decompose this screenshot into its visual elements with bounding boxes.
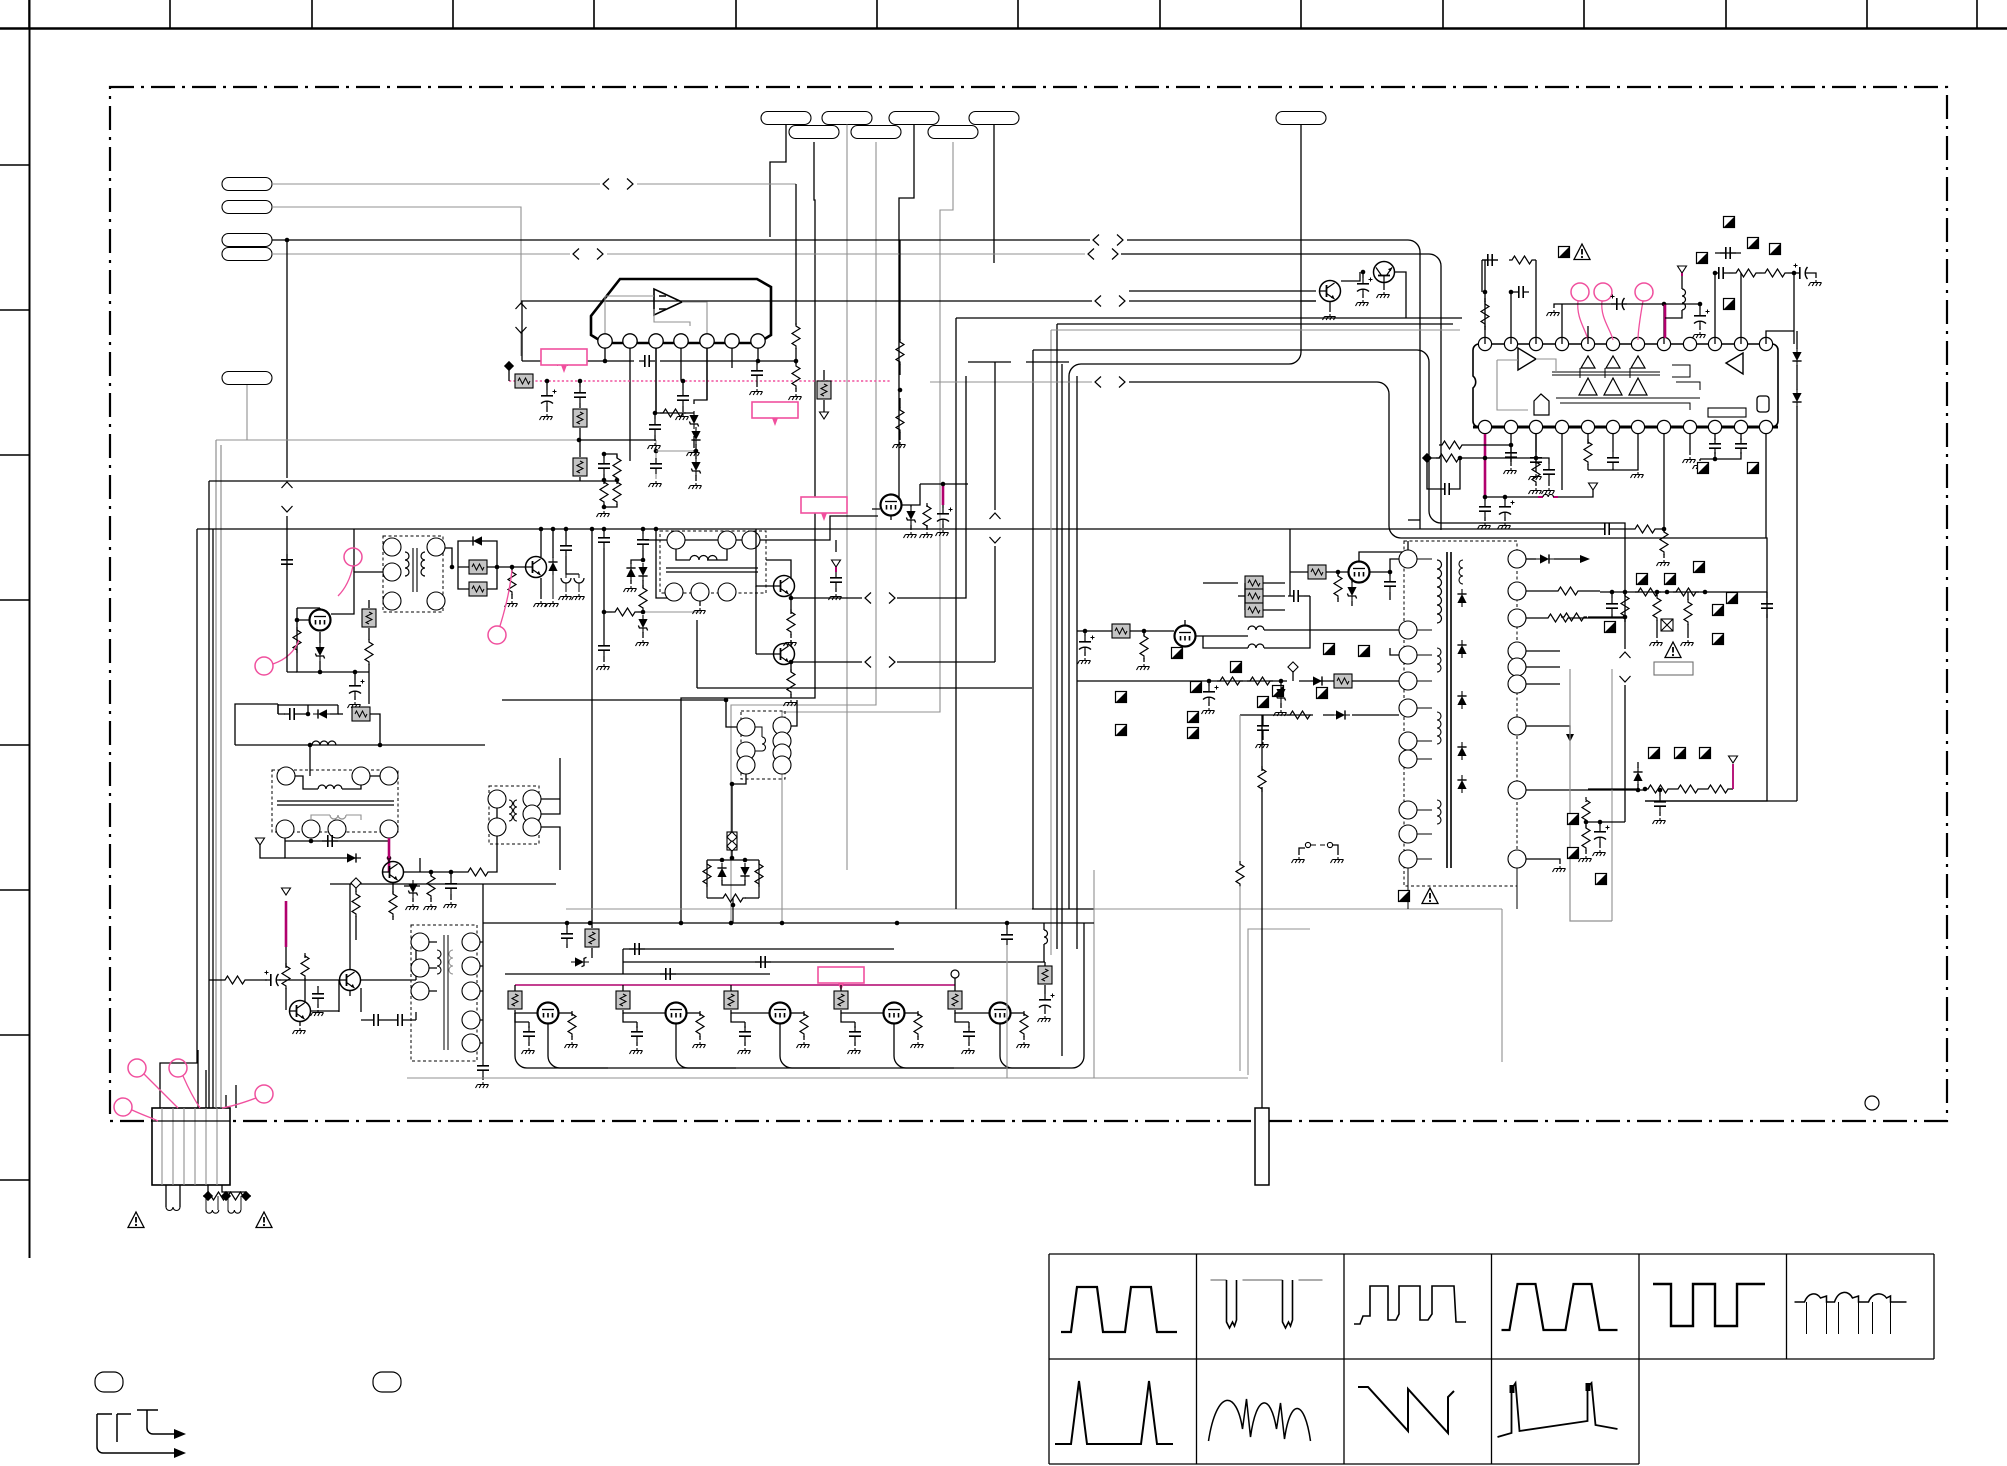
- resistor y592 a: [1635, 588, 1661, 596]
- hook-arrow legend symbol: [97, 1410, 174, 1453]
- resistor x1586 y808: [1585, 801, 1587, 802]
- wire x900 from top: [899, 240, 901, 330]
- resistor chain y789: [1588, 788, 1636, 790]
- connector stub CB8: [928, 126, 978, 139]
- cap x655 y427: [654, 413, 656, 419]
- resistor x1657 y600: [1656, 592, 1658, 596]
- resistor x431: [430, 872, 432, 876]
- op-amp inside U1: [654, 289, 682, 315]
- transformer T2 dashed box: [660, 531, 766, 593]
- electrolytic x1049 y1002: [1039, 994, 1055, 1011]
- bus wire net5 y301: [521, 300, 1316, 302]
- zener x643 y622: [638, 615, 647, 633]
- junction y790 parts: [1636, 788, 1641, 793]
- half square marker d: [1697, 253, 1708, 264]
- U1 internal wiring: [605, 296, 707, 336]
- zener x696: [695, 451, 697, 459]
- magenta drop x389: [388, 838, 391, 872]
- resistor R y445 left: [1439, 441, 1465, 449]
- wire x197 drop to connector: [160, 529, 197, 1108]
- caps x1715 x1741: [1709, 438, 1721, 454]
- fuse bar F1: [1255, 1108, 1269, 1185]
- bus wire y529 long rail: [197, 528, 1664, 530]
- Q3 drain up to T1: [331, 572, 383, 614]
- break mark net2 vertical: [516, 303, 527, 333]
- waveform cell 3 stepped square: [1354, 1286, 1466, 1324]
- cap at x836: [830, 572, 842, 588]
- connector stub CL4: [222, 248, 272, 261]
- wire Q1 emitter to bus: [1129, 290, 1316, 292]
- wire from stub CB6: [681, 142, 815, 923]
- transistor Q6: [774, 644, 795, 665]
- connector CN1 body: [152, 1108, 230, 1185]
- MOSFET Q11: [666, 1003, 687, 1024]
- T7 winding: [762, 737, 766, 751]
- base wire to Q3b: [497, 566, 525, 568]
- inductor y745: [312, 741, 336, 745]
- zener at Q7: [408, 880, 417, 898]
- row y497 with inductor: [1485, 490, 1593, 497]
- IC U1 body: [591, 279, 771, 343]
- Q5 emitter chain: [790, 594, 792, 614]
- bus wire net4 (gray): [272, 253, 1085, 255]
- Q6 collector: [790, 640, 792, 646]
- bowtie marker x1667 y625: [1661, 619, 1673, 631]
- pink circle P5: [488, 626, 506, 644]
- rail y440 black segment: [579, 439, 656, 441]
- diode in loop: [468, 536, 486, 545]
- boxed resistor x580 v1: [579, 403, 581, 408]
- wire from stub CB4: [993, 125, 995, 264]
- Q1 internal resistor lead: [1301, 272, 1360, 301]
- waveform cell 4 trapezoid wave: [1502, 1284, 1618, 1330]
- curl pair x566 x579: [561, 578, 571, 583]
- zener at Q4: [906, 507, 915, 525]
- T6 bottom pin drops to y909: [1408, 868, 1517, 909]
- T6 winding low: [1437, 712, 1441, 744]
- resistor y872 h: [465, 868, 491, 876]
- wire y459 link: [1700, 452, 1741, 459]
- cap x567 y935: [566, 923, 568, 928]
- gray elbow bus bottom right: [1094, 870, 1310, 1078]
- Q12 drain drop to rail: [780, 1024, 840, 1068]
- T6 ground pins left: [1390, 648, 1399, 655]
- cap x1660 y800: [1659, 790, 1661, 796]
- cap x1390 y580: [1389, 572, 1391, 576]
- U2 pin 17 (bottom): [1581, 420, 1594, 433]
- wire y304 right segment: [1664, 303, 1700, 305]
- Q4 surround parts: [872, 484, 920, 520]
- resistor x512 below base: [511, 567, 513, 572]
- Q10 right resistor: [559, 1012, 572, 1014]
- Q10 source cap: [515, 1013, 529, 1022]
- Q9 wiring: [300, 1011, 339, 1026]
- cap x1613 y460: [1607, 452, 1619, 468]
- sheet left tick marks: [0, 165, 30, 1180]
- U2 pin 2 (top): [1504, 337, 1517, 350]
- wire y481 left rail: [209, 480, 617, 482]
- U2 pin 7 (top): [1631, 337, 1644, 350]
- T5 core: [444, 935, 448, 1050]
- half square marker b: [1748, 238, 1759, 249]
- half square marker under T6: [1399, 891, 1410, 902]
- bus wire x995 drop: [994, 362, 996, 662]
- electrolytic x1600 y832: [1599, 822, 1601, 826]
- waveform cell 7 narrow spikes: [1055, 1381, 1173, 1444]
- long drop x592 to bottom row: [591, 529, 593, 928]
- electrolytic right y273: [1793, 272, 1795, 274]
- junction x1645 y789: [1643, 787, 1648, 792]
- triangle-down node x1682: [1678, 266, 1687, 273]
- resistor x900 v: [899, 330, 901, 340]
- CN1 bottom winding left: [166, 1185, 180, 1207]
- break mark net3: [1093, 235, 1123, 246]
- U2 pin 22 (bottom): [1708, 420, 1721, 433]
- transistor Q5: [774, 576, 795, 597]
- Q13 right resistor: [905, 1012, 918, 1014]
- U2 pin 14 (bottom): [1504, 420, 1517, 433]
- resistor x1240 y862 v: [1239, 862, 1241, 866]
- boxed resistor x369 v: [368, 600, 370, 608]
- wire stub CL5 tail: [216, 385, 247, 440]
- wires into CN1 from above: [198, 1050, 236, 1108]
- Q11 right resistor: [687, 1012, 700, 1014]
- T2 bottom pin grounds: [699, 601, 701, 606]
- bus y923: [483, 922, 1094, 924]
- wire feed Q16: [1290, 571, 1348, 573]
- wire from stub CB3: [899, 125, 914, 501]
- row y458 under U2-left: [1427, 457, 1533, 459]
- CN1 top band line: [152, 1120, 230, 1122]
- cap x1511: [1505, 447, 1517, 463]
- U2 pin 6 (top): [1606, 337, 1619, 350]
- boxed resistor x592 y938: [591, 927, 593, 929]
- wire x222 y980: [209, 979, 222, 981]
- electrolytic cap C x547: [546, 381, 548, 390]
- triangle node above Q5: [832, 560, 841, 567]
- wire from stub CB1: [770, 125, 786, 238]
- wire x235 drop: [235, 704, 278, 745]
- T5 pins left: [411, 933, 429, 951]
- resistor x1586 lower2: [1582, 825, 1590, 851]
- boxed resistor x1049 y975: [1038, 966, 1052, 984]
- arrow y734: [1566, 734, 1574, 742]
- diode from T6 pin1: [1526, 558, 1536, 560]
- waveform cell 8 arch bumps: [1209, 1399, 1311, 1441]
- MOSFET Q13: [884, 1003, 905, 1024]
- wire left leg x522: [521, 301, 523, 361]
- T2 windings+core: [690, 556, 717, 561]
- resistor y980 h: [222, 976, 248, 984]
- waveform cell 1 square wave: [1061, 1287, 1177, 1332]
- resistor under Q5: [787, 609, 795, 635]
- inductor x1682: [1681, 276, 1683, 289]
- series resistors below CN1: [203, 1192, 229, 1200]
- terminal stub bottom A: [95, 1372, 123, 1392]
- bus y592 right area: [1600, 591, 1767, 593]
- arrow out y559: [1580, 555, 1590, 563]
- Q14 right resistor: [1011, 1012, 1024, 1014]
- snubber loop lower: [458, 567, 497, 589]
- ground x1638: [1631, 472, 1644, 478]
- source rail tail x515: [515, 1013, 560, 1068]
- break mark y382: [1095, 377, 1125, 388]
- wire y361 under U1: [522, 360, 758, 362]
- bridge diode up: [721, 860, 723, 862]
- Q3 source down: [297, 652, 369, 672]
- connector stub CL2: [222, 201, 272, 214]
- U2 driver triangles row1: [1581, 356, 1595, 368]
- bus wire y318 to IC2: [956, 318, 1462, 909]
- gray bottom rail y1078: [407, 1077, 1248, 1079]
- T1 windings: [405, 552, 409, 576]
- secondary network y651: [1526, 651, 1560, 684]
- magenta riser x286: [285, 901, 288, 947]
- resistor R top y260: [1509, 256, 1535, 264]
- wire y304 bus above U2: [1562, 303, 1664, 305]
- triangle node x260 y845: [256, 838, 265, 845]
- resistor x1338 v: [1337, 572, 1339, 576]
- boxed resistor y681: [1334, 674, 1352, 688]
- connector stub CB3: [889, 112, 939, 125]
- Q11 drain drop to rail: [676, 1024, 736, 1068]
- ground x694: [687, 450, 700, 456]
- warning triangle W2: [256, 1212, 272, 1228]
- wire x286 down to Q9: [285, 947, 287, 968]
- resistor y617: [1561, 613, 1587, 621]
- pink lead from T1: [338, 566, 353, 596]
- bus wire y330 gray nested: [1051, 330, 1460, 955]
- boxed resistor at Q13 gate: [840, 985, 842, 992]
- resistor x1688 y604 v: [1687, 592, 1689, 600]
- fusible resistor F2: [727, 832, 737, 850]
- T4 core+windings: [509, 800, 513, 821]
- label box gray: [1654, 662, 1693, 675]
- inductor y497: [1543, 494, 1553, 497]
- U1 pin 1: [598, 334, 612, 348]
- cap x1536 y460: [1530, 452, 1542, 468]
- transistor Q2: [1374, 262, 1395, 283]
- capacitor C on y361: [639, 355, 655, 367]
- resistor y591: [1555, 587, 1581, 595]
- U2 driver triangles row2: [1579, 378, 1597, 395]
- T7 right loop: [791, 700, 797, 726]
- resistor x356 y904: [352, 891, 360, 917]
- cap x643 below bus: [642, 529, 644, 534]
- bus wire x1033 drop: [1032, 350, 1034, 909]
- wire x310 drop to T3: [309, 745, 311, 776]
- snubber loop upper: [458, 541, 497, 567]
- pink dotted control line: [509, 380, 890, 382]
- T3 winding top: [318, 785, 342, 789]
- wire x1045 to y962: [1040, 961, 1045, 963]
- gray rail y909: [566, 908, 1502, 910]
- half square marker f: [1698, 463, 1709, 474]
- secondary y591 wire: [1526, 590, 1600, 592]
- row y612 with resistor: [604, 611, 612, 613]
- boxed resistor on pink line: [515, 374, 533, 388]
- U2 pin 24 (bottom): [1759, 420, 1772, 433]
- boxed resistor x580 v2: [579, 428, 581, 457]
- wire U2 pin1 riser: [1485, 260, 1536, 344]
- Q15 gate cap: [1185, 620, 1203, 636]
- PCB outline (dash-dot border): [110, 87, 1947, 1121]
- bus y949: [623, 948, 894, 950]
- top right cap network: [1715, 253, 1741, 344]
- U2 pin 21 (bottom): [1683, 420, 1696, 433]
- transformer T1 dashed box: [383, 536, 443, 612]
- waveform cell 5 square notch: [1653, 1284, 1765, 1326]
- U2 pin 3 (top): [1529, 337, 1542, 350]
- Q13 drain drop to rail: [894, 1024, 954, 1068]
- wire x1290 riser: [1289, 529, 1291, 596]
- wire T2 right pin to MOSFET: [760, 516, 878, 540]
- U2 buffer symbol: [1534, 394, 1549, 415]
- waveform cell 6 noisy flat wave: [1795, 1292, 1907, 1302]
- bus y617 right: [1588, 616, 1625, 618]
- bus wire y324 (black) nested: [1057, 324, 1453, 949]
- T6 secondary diode column: [1457, 589, 1466, 607]
- sub-board outline gray right: [1570, 669, 1612, 921]
- series c-r-r row y273: [1713, 271, 1718, 276]
- long gray rail pair from CL5 down left side: [216, 440, 221, 1108]
- wire x1562 pin4 riser: [1562, 304, 1664, 344]
- resistor x1144 v: [1143, 631, 1145, 636]
- transistor Q9: [290, 1001, 311, 1022]
- U2 pin 15 (bottom): [1529, 420, 1542, 433]
- gray drop x1240: [1239, 715, 1241, 862]
- zener x592 y962: [571, 957, 589, 966]
- diode x696 above: [691, 427, 700, 445]
- bus wire y362 with break: [968, 361, 1069, 363]
- capacitor C top x1490: [1482, 254, 1498, 266]
- magenta at Q4 top: [942, 484, 945, 505]
- transformer T7 dashed box: [741, 711, 785, 779]
- break mark net4b: [1088, 249, 1118, 260]
- CN1 bottom resistor network: [208, 1185, 246, 1192]
- cap x1607 y529: [1599, 523, 1615, 535]
- Q6 base: [756, 586, 773, 654]
- wire pair x209 x213 to connector: [209, 481, 213, 1108]
- U2 internal bus lines: [1552, 368, 1700, 410]
- wire U2 pin24 drop: [1765, 434, 1767, 538]
- connector stub CB5: [1276, 112, 1326, 125]
- resistor small x369: [365, 639, 373, 665]
- connector stub CB4: [969, 112, 1019, 125]
- half squares y592 area: [1637, 574, 1648, 585]
- boxed resistor lower loop: [469, 582, 487, 596]
- ground x683: [676, 414, 689, 420]
- bus y715 into T6: [1263, 714, 1399, 716]
- pink label flag4: [818, 967, 864, 991]
- warning triangle under T6: [1422, 888, 1438, 904]
- wire right frame from y520: [1419, 520, 1421, 529]
- Q12 source cap: [731, 1013, 745, 1022]
- wire T1 pin3 to bus y529: [353, 529, 355, 572]
- ground x1700 y461: [1699, 459, 1701, 461]
- wire x1420 drop from net3: [1408, 519, 1420, 521]
- cap x604 y648: [598, 640, 610, 656]
- T5 right links to bus x483: [480, 942, 483, 1043]
- triangle node x1593 y486: [1589, 483, 1598, 490]
- op-amp A inside U2: [1518, 348, 1536, 370]
- pink lead P5 to base node: [500, 570, 512, 626]
- MOSFET Q4: [881, 495, 902, 516]
- ground x604 y511: [597, 511, 610, 517]
- capacitor C near Q1: [1361, 270, 1366, 275]
- boxed resistor at Q12 gate: [730, 985, 732, 992]
- U2 internal block bar: [1708, 408, 1746, 417]
- Q12 right resistor: [791, 1012, 804, 1014]
- vertical bus x483: [482, 884, 484, 1060]
- bus wire net1 (gray): [272, 183, 796, 185]
- wire from stub CB2: [846, 125, 848, 871]
- resistor zigzags y681: [1217, 677, 1243, 685]
- resistor x797 y376: [795, 361, 797, 364]
- bridge left resistor: [703, 861, 711, 887]
- electrolytic x1505 y507: [1504, 497, 1506, 501]
- terminal circle x955: [951, 970, 959, 978]
- cap x1209 y690: [1208, 681, 1210, 686]
- cap x483 y1065: [477, 1060, 489, 1076]
- connector stub CB6: [789, 126, 839, 139]
- T3 core: [277, 801, 394, 805]
- break mark net1: [603, 179, 633, 190]
- bus wire y350 nested frame: [1033, 350, 1625, 801]
- wire vertical from net3 junction: [286, 240, 288, 556]
- waveform cell 9 sawtooth: [1358, 1387, 1454, 1433]
- break marks on x1625: [1620, 652, 1631, 682]
- column x656 cap: [655, 440, 657, 460]
- resistor y458: [1436, 454, 1462, 462]
- U2 pin 11 (top): [1734, 337, 1747, 350]
- switch grounds: [1292, 857, 1305, 863]
- RC off pin y618: [1526, 617, 1545, 619]
- diode x553: [552, 529, 554, 558]
- diamond x356 y883: [351, 878, 361, 888]
- resistor x643 y598: [642, 580, 644, 588]
- warning triangle above U2: [1574, 244, 1590, 260]
- cap loop x1427-1460: [1427, 458, 1460, 489]
- ground x1690: [1683, 457, 1696, 463]
- capacitor C x580: [579, 381, 581, 387]
- T5 windings: [437, 950, 441, 974]
- U2 pin 8 (top): [1657, 337, 1670, 350]
- sheet left rule: [29, 0, 31, 1258]
- cap x1485 y507: [1484, 497, 1486, 501]
- U2 pin 1 (top): [1478, 337, 1491, 350]
- electrolytic x1085 y640: [1084, 631, 1086, 636]
- thermistor bridge box: [707, 860, 759, 898]
- wire from stub CB8: [782, 142, 953, 923]
- zener x694 y427: [694, 348, 707, 448]
- drain rail y1068: [560, 923, 1084, 1068]
- capacitor C x683 under pink: [682, 381, 684, 390]
- junction x1263 y715 cap: [1262, 715, 1264, 720]
- diode y858: [343, 853, 361, 862]
- connector stub CL5: [222, 372, 272, 385]
- wire x389 to Q7: [388, 858, 390, 862]
- U1 pin 6: [725, 334, 739, 348]
- wire y413 row: [655, 412, 694, 414]
- resistor R on y361: [547, 357, 573, 365]
- transformer T6 dashed box: [1404, 541, 1517, 886]
- MOSFET Q12: [770, 1003, 791, 1024]
- connector stub CB1: [761, 112, 811, 125]
- gray link y451: [656, 450, 696, 452]
- cap x668 y974: [660, 968, 676, 980]
- half square marker tl: [1559, 247, 1570, 258]
